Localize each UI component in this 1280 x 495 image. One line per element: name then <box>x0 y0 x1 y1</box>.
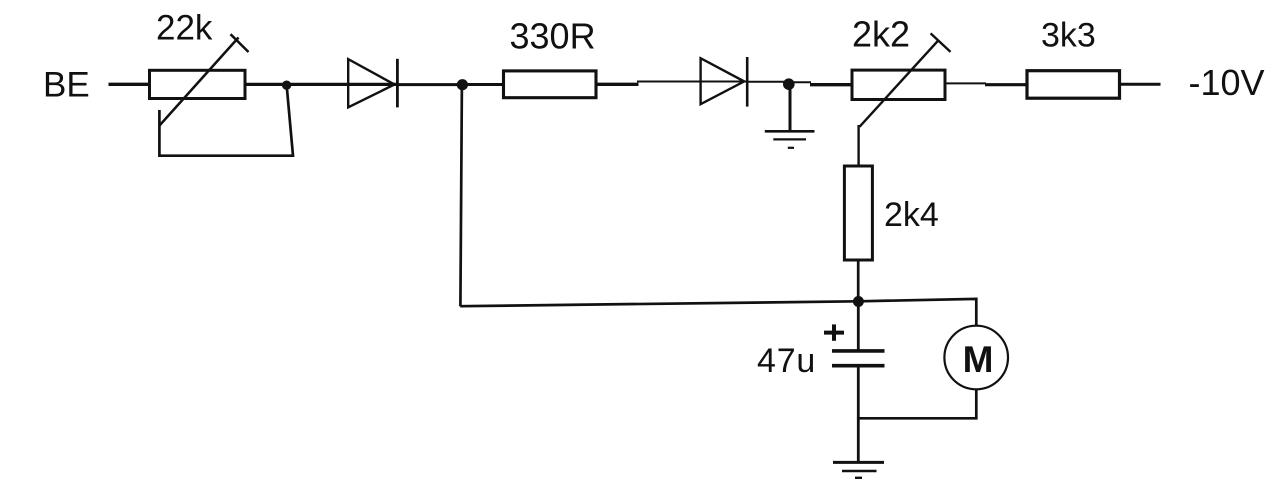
motor M1 <box>944 326 1008 390</box>
node junction D <box>853 296 864 307</box>
wire motor bottom <box>975 389 978 419</box>
svg-text:2k4: 2k4 <box>884 196 939 234</box>
value label 2k2 <box>852 13 910 54</box>
wire 3k3 to -10V <box>1120 83 1161 86</box>
wire 2k2 wiper down <box>857 125 859 166</box>
wire D2 to node C <box>746 81 790 83</box>
resistor R4 3k3 body <box>1027 71 1120 99</box>
node junction B <box>457 79 468 90</box>
wire node C to potentiometer 2k2 <box>793 82 852 85</box>
wire 2k4 to node D <box>857 260 860 302</box>
ground GND1 <box>765 131 815 148</box>
wire node B to resistor 330R <box>462 83 503 86</box>
node junction C <box>783 78 795 90</box>
wire feedback rail from node B <box>460 301 858 306</box>
wire D1 to node B <box>397 83 464 86</box>
wire 330R right segment <box>596 83 639 86</box>
svg-text:2k2: 2k2 <box>852 13 910 54</box>
net label -10V <box>1189 62 1265 103</box>
svg-text:-10V: -10V <box>1189 62 1265 103</box>
net label BE <box>43 66 90 105</box>
wire wiper feedback loop <box>159 87 293 156</box>
wire BE to potentiometer <box>109 83 151 86</box>
potentiometer R3 2k2 body <box>852 70 945 99</box>
potentiometer R1 22k body <box>150 70 246 98</box>
resistor R5 2k4 body <box>844 166 872 260</box>
ground GND2 <box>833 462 884 477</box>
motor label M <box>963 339 994 380</box>
value label 47u <box>757 342 816 380</box>
svg-text:22k: 22k <box>156 8 213 47</box>
svg-text:M: M <box>963 339 994 380</box>
wire 2k2 to 3k3 <box>946 83 1027 84</box>
diode D2 <box>701 57 748 107</box>
wire capacitor to bottom rail <box>857 366 860 420</box>
wire node D to capacitor <box>857 301 860 351</box>
svg-text:3k3: 3k3 <box>1041 17 1096 55</box>
capacitor C1 47u plates <box>832 351 885 366</box>
potentiometer R1 arrow <box>160 34 249 125</box>
wire bottom rail to ground <box>857 418 860 463</box>
svg-text:47u: 47u <box>757 342 816 380</box>
svg-text:BE: BE <box>43 66 90 105</box>
wire node D to motor top <box>859 299 977 326</box>
wire jog to diode D2 <box>637 81 748 83</box>
value label 2k4 <box>884 196 939 234</box>
wire node C to ground <box>789 84 792 132</box>
wire potentiometer to diode D1 <box>245 83 398 86</box>
svg-text:330R: 330R <box>510 15 596 56</box>
diode D1 <box>348 59 397 108</box>
value label 3k3 <box>1041 17 1096 55</box>
potentiometer R3 arrow <box>860 33 951 126</box>
wire bottom rail <box>857 417 978 420</box>
wire node B down <box>460 85 462 307</box>
value label 330R <box>510 15 596 56</box>
node junction A <box>282 81 291 90</box>
resistor R2 330R body <box>504 71 597 98</box>
value label 22k <box>156 8 213 47</box>
capacitor polarity plus <box>824 324 844 340</box>
